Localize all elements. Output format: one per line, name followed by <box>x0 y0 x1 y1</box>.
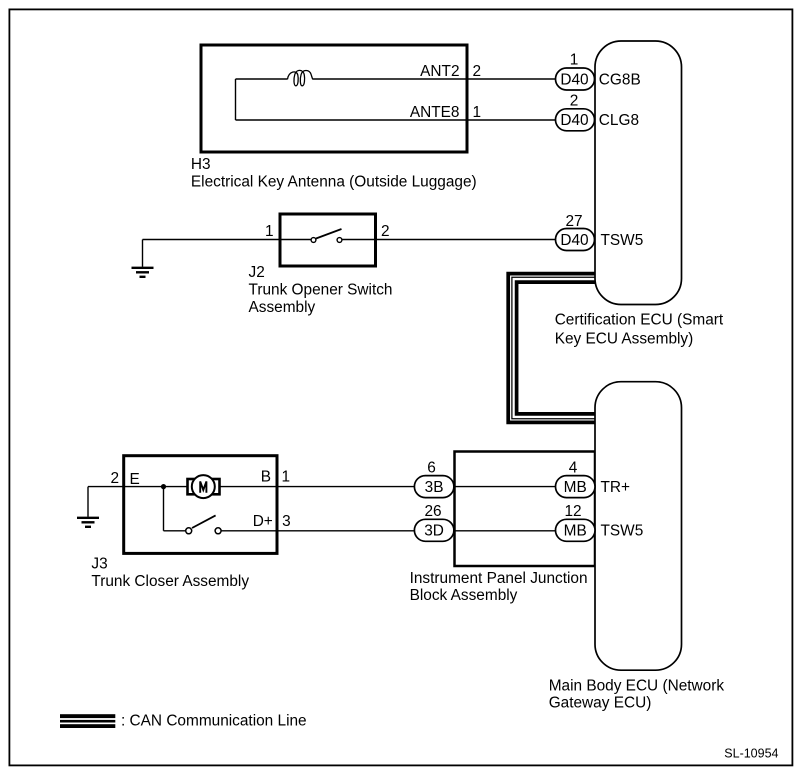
svg-text:26: 26 <box>424 503 441 520</box>
wire ground to J2 pin 1 <box>143 239 314 241</box>
svg-text:1: 1 <box>473 104 482 121</box>
svg-text:Gateway ECU): Gateway ECU) <box>549 695 652 712</box>
svg-text:MB: MB <box>564 523 587 540</box>
wire ANT2 to D40 <box>313 78 557 80</box>
svg-text:Main Body ECU (Network: Main Body ECU (Network <box>549 678 725 695</box>
svg-text:Certification ECU (Smart: Certification ECU (Smart <box>555 312 724 329</box>
H3 box <box>201 45 467 152</box>
legend CAN bars <box>60 714 115 728</box>
Certification ECU body <box>595 41 682 305</box>
svg-text:2: 2 <box>473 63 482 80</box>
antenna loop vertical <box>235 79 237 120</box>
ground symbol 1 (J2) <box>132 268 154 277</box>
wire ground to motor (pin E) <box>88 486 188 488</box>
motor M1 letter M <box>200 481 206 492</box>
svg-text:TSW5: TSW5 <box>601 523 644 540</box>
svg-text:D40: D40 <box>560 71 588 88</box>
svg-text:Trunk Closer Assembly: Trunk Closer Assembly <box>91 573 249 590</box>
connector D40 row1 <box>556 68 595 90</box>
connector D40 row3 <box>556 229 595 251</box>
svg-text:CLG8: CLG8 <box>599 112 639 129</box>
svg-text:3B: 3B <box>425 479 444 496</box>
svg-text:J3: J3 <box>91 556 107 573</box>
ground symbol 2 (J3) <box>77 518 99 527</box>
CAN bus inner line <box>517 282 596 414</box>
svg-text:ANTE8: ANTE8 <box>410 104 460 121</box>
svg-text:D40: D40 <box>560 112 588 129</box>
motor M1 body <box>188 479 220 494</box>
CAN bus outer line <box>508 274 596 423</box>
svg-text:1: 1 <box>570 52 579 69</box>
svg-text:TR+: TR+ <box>601 479 631 496</box>
svg-text:: CAN Communication Line: : CAN Communication Line <box>121 713 307 730</box>
wire junction drop to switch <box>163 487 165 531</box>
svg-text:1: 1 <box>265 223 274 240</box>
connector 3B <box>414 476 454 498</box>
J2 box <box>280 214 376 266</box>
svg-text:Electrical Key Antenna (Outsid: Electrical Key Antenna (Outside Luggage) <box>191 173 477 190</box>
connector D40 row2 <box>556 109 595 131</box>
wire motor to 3B (pin B) <box>220 486 557 488</box>
svg-text:ANT2: ANT2 <box>420 63 459 80</box>
svg-text:MB: MB <box>564 479 587 496</box>
connector MB row2 <box>556 519 596 541</box>
svg-text:H3: H3 <box>191 156 211 173</box>
Main Body ECU body <box>595 382 682 671</box>
svg-text:B: B <box>261 469 271 486</box>
connector 3D <box>414 519 454 541</box>
wire ANT2 row <box>88 79 556 531</box>
svg-text:D+: D+ <box>253 513 273 530</box>
CAN bus middle line <box>512 277 596 418</box>
ground 2 drop <box>87 487 89 517</box>
svg-text:Trunk Opener Switch: Trunk Opener Switch <box>249 281 393 298</box>
CAN communication line (triple) between ECUs <box>508 274 596 423</box>
svg-text:4: 4 <box>569 460 578 477</box>
wire switch J3 to 3D (pin D+) <box>218 530 556 532</box>
svg-text:2: 2 <box>570 93 579 110</box>
svg-text:3D: 3D <box>424 523 444 540</box>
svg-text:2: 2 <box>110 470 119 487</box>
wire ANTE8 row <box>236 119 557 121</box>
junction dot <box>161 484 166 489</box>
antenna coil <box>288 70 313 85</box>
switch J3 blade <box>192 515 216 528</box>
svg-text:12: 12 <box>564 503 581 520</box>
svg-text:6: 6 <box>427 460 436 477</box>
svg-text:Block Assembly: Block Assembly <box>410 587 518 604</box>
svg-text:Key ECU Assembly): Key ECU Assembly) <box>555 330 694 347</box>
switch J2 right contact <box>337 238 342 243</box>
motor M1 circle <box>192 475 215 498</box>
svg-text:Assembly: Assembly <box>249 299 316 316</box>
connector MB row1 <box>556 476 596 498</box>
switch J2 left contact <box>311 238 316 243</box>
svg-text:J2: J2 <box>249 264 265 281</box>
switch J2 blade <box>316 229 342 239</box>
Instrument Panel Junction Block box <box>455 452 596 567</box>
switch J3 left contact <box>186 528 192 534</box>
svg-text:E: E <box>130 471 140 488</box>
svg-text:Instrument Panel Junction: Instrument Panel Junction <box>410 570 588 587</box>
svg-text:TSW5: TSW5 <box>601 232 644 249</box>
wire to switch J3 left contact <box>164 530 189 532</box>
svg-text:CG8B: CG8B <box>599 71 641 88</box>
wire J2 pin 2 to D40 <box>340 239 557 241</box>
svg-text:1: 1 <box>282 469 291 486</box>
svg-text:3: 3 <box>282 513 291 530</box>
svg-text:SL-10954: SL-10954 <box>724 746 778 760</box>
svg-text:27: 27 <box>565 213 582 230</box>
svg-text:D40: D40 <box>560 232 588 249</box>
J3 box <box>124 456 277 554</box>
switch J3 right contact <box>215 528 221 534</box>
svg-text:2: 2 <box>381 223 390 240</box>
ground 1 drop <box>142 240 144 267</box>
